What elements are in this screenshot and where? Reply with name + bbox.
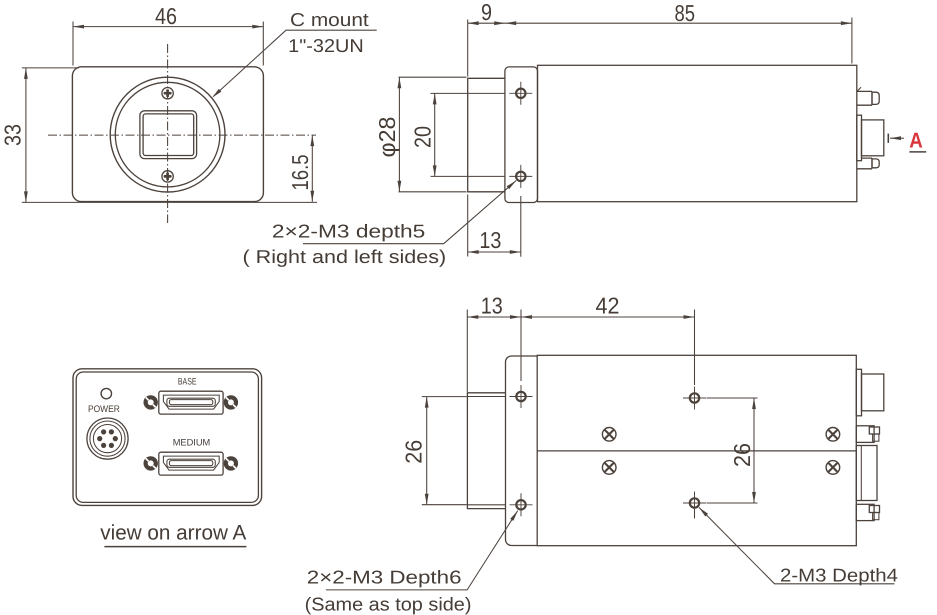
- svg-text:13: 13: [479, 227, 501, 253]
- svg-text:C mount: C mount: [290, 9, 370, 30]
- svg-text:16.5: 16.5: [287, 155, 313, 191]
- svg-text:POWER: POWER: [88, 404, 120, 415]
- svg-text:A: A: [909, 128, 923, 152]
- svg-text:42: 42: [596, 293, 620, 319]
- svg-text:9: 9: [481, 0, 492, 25]
- svg-text:26: 26: [729, 443, 755, 467]
- svg-text:MEDIUM: MEDIUM: [173, 437, 211, 448]
- svg-text:20: 20: [409, 126, 435, 148]
- svg-text:13: 13: [481, 293, 503, 319]
- svg-text:( Right and left sides): ( Right and left sides): [243, 246, 447, 267]
- svg-text:85: 85: [675, 0, 696, 26]
- svg-text:φ28: φ28: [374, 117, 400, 158]
- svg-text:33: 33: [0, 124, 25, 146]
- svg-text:2-M3 Depth4: 2-M3 Depth4: [780, 565, 898, 586]
- svg-text:26: 26: [401, 440, 427, 464]
- svg-text:BASE: BASE: [178, 377, 197, 388]
- svg-text:(Same as top side): (Same as top side): [305, 594, 472, 615]
- svg-text:46: 46: [155, 3, 177, 29]
- svg-text:2×2-M3 depth5: 2×2-M3 depth5: [272, 221, 425, 242]
- svg-text:2×2-M3 Depth6: 2×2-M3 Depth6: [307, 567, 462, 588]
- svg-text:1"-32UN: 1"-32UN: [288, 35, 364, 56]
- svg-text:view on arrow A: view on arrow A: [100, 522, 246, 545]
